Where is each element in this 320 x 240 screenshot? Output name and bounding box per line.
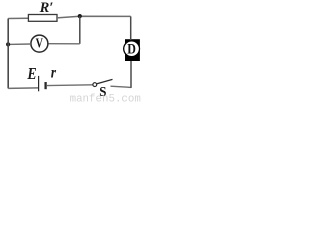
node junction dot top — [78, 14, 82, 18]
battery short plate — [44, 82, 46, 89]
node junction dot left — [6, 42, 10, 46]
wire top-left segment — [8, 17, 28, 19]
svg-text:manfen5.com: manfen5.com — [70, 93, 141, 103]
switch lever — [97, 79, 113, 83]
wire vertical connector — [79, 16, 81, 44]
wire motor to top corner — [130, 16, 132, 40]
wire right vertical lower — [130, 61, 132, 88]
svg-text:R′: R′ — [39, 0, 54, 16]
svg-text:D: D — [127, 40, 136, 57]
voltmeter V circle — [31, 35, 48, 52]
battery long plate — [38, 76, 40, 91]
wire voltmeter left — [8, 43, 31, 45]
motor body rectangle — [125, 39, 140, 61]
svg-text:E: E — [27, 65, 37, 84]
resistor R' box — [28, 15, 57, 22]
wire voltmeter right — [48, 43, 80, 45]
svg-text:r: r — [51, 65, 56, 82]
wire top-right segment — [57, 16, 131, 18]
wire left vertical — [7, 19, 9, 89]
wire bottom-left segment — [8, 87, 38, 90]
switch pivot circle — [93, 83, 97, 87]
motor circle — [124, 41, 140, 57]
wire battery to switch — [47, 84, 93, 87]
wire switch to corner — [111, 86, 132, 87]
svg-text:V: V — [36, 35, 44, 51]
